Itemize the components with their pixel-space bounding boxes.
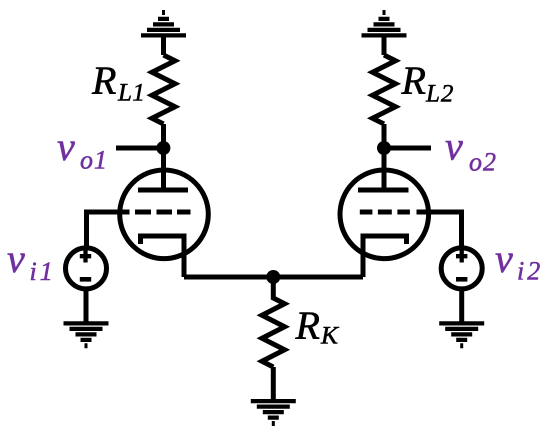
wire vi1 to ground [84, 288, 89, 322]
triode V2 plate [358, 148, 409, 190]
label vo1 [57, 124, 108, 175]
wire vi2 to ground [459, 288, 464, 322]
source vi1 circle [66, 248, 107, 289]
wire grid V1 to vi1 [87, 212, 130, 248]
triode V2 [340, 148, 429, 277]
svg-text:v: v [445, 124, 463, 169]
resistor RL2 [373, 55, 396, 124]
triode V1 grid (dashed) [135, 210, 191, 215]
triode V2 cathode [363, 236, 407, 277]
node K [266, 270, 280, 284]
svg-text:v: v [7, 236, 25, 281]
triode V1 cathode [141, 236, 185, 277]
wire RL1 to node vo1 [161, 124, 166, 148]
node vo1 [156, 141, 170, 155]
svg-text:K: K [320, 321, 340, 350]
resistor RK [262, 277, 285, 367]
triode V1 envelope [120, 170, 209, 259]
label vo2 [445, 124, 497, 177]
svg-text:v: v [495, 236, 513, 281]
label vi1 [7, 236, 56, 286]
svg-text:L2: L2 [425, 81, 454, 108]
source vi2 circle [441, 248, 482, 289]
wire grid V2 to vi2 [417, 212, 462, 248]
svg-text:R: R [91, 58, 116, 103]
ground under vi1 [64, 321, 109, 348]
label RK [295, 303, 341, 350]
node vo2 [377, 141, 391, 155]
source vi1 minus [80, 277, 91, 282]
svg-text:i2: i2 [517, 257, 543, 286]
supply symbol VCC right (inverted ground) [362, 10, 407, 38]
supply symbol VCC left (inverted ground) [141, 10, 186, 38]
triode V1 [120, 148, 209, 277]
wire vo2 stub [384, 146, 431, 151]
ground under vi2 [439, 321, 484, 348]
ground under RK [251, 399, 296, 426]
wire supply2 to RL2 [382, 37, 387, 55]
triode V2 grid (dashed) [360, 210, 410, 215]
triode V1 plate [138, 148, 188, 190]
svg-text:o2: o2 [469, 148, 497, 177]
label vi2 [495, 236, 543, 286]
label RL1 [91, 58, 145, 107]
label RL2 [401, 58, 455, 108]
source vi1 [66, 248, 107, 289]
resistor RL1 [152, 55, 175, 124]
source vi2 [441, 248, 482, 289]
source vi2 minus [456, 277, 467, 282]
svg-text:o1: o1 [80, 146, 108, 175]
wire supply1 to RL1 [161, 37, 166, 55]
wire RL2 to node vo2 [382, 124, 387, 148]
svg-text:R: R [401, 58, 426, 103]
wire vo1 stub [116, 146, 163, 151]
svg-text:i1: i1 [30, 257, 56, 286]
wire cathode bus [184, 275, 363, 280]
svg-text:L1: L1 [117, 80, 145, 107]
source vi2 plus [456, 250, 467, 263]
svg-text:R: R [295, 303, 320, 348]
source vi1 plus [80, 250, 91, 263]
triode V2 envelope [340, 170, 429, 259]
wire RK to ground [271, 367, 276, 399]
svg-text:v: v [57, 124, 75, 169]
